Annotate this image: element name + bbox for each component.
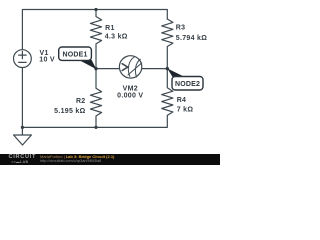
footer bar — [0, 154, 220, 166]
ground — [21, 127, 23, 135]
footer title text — [40, 154, 114, 159]
svg-text:R4: R4 — [177, 97, 187, 104]
resistor R2 — [90, 69, 101, 128]
node junction dot bottom R2 — [94, 126, 97, 129]
svg-text:10 V: 10 V — [39, 56, 55, 63]
svg-text:5.195 kΩ: 5.195 kΩ — [54, 108, 85, 115]
svg-text:7 kΩ: 7 kΩ — [177, 107, 194, 114]
wire left rail lower — [21, 68, 23, 128]
resistor R1 — [90, 10, 101, 69]
svg-text:NODE2: NODE2 — [175, 81, 200, 88]
voltage source V1 — [14, 50, 32, 68]
node flag NODE2 — [167, 68, 203, 90]
node junction dot top R1 — [94, 8, 97, 11]
footer url text — [40, 159, 101, 163]
wire bottom rail — [22, 116, 167, 127]
voltmeter VM2 — [119, 56, 141, 78]
wire bridge right — [142, 68, 168, 70]
svg-text:5.794 kΩ: 5.794 kΩ — [176, 35, 207, 42]
svg-text:VM2: VM2 — [123, 86, 138, 93]
svg-text:0.000 V: 0.000 V — [117, 93, 143, 100]
node NODE2 junction dot — [166, 67, 169, 70]
svg-text:R2: R2 — [76, 98, 86, 105]
svg-text:R3: R3 — [176, 25, 186, 32]
svg-text:R1: R1 — [105, 25, 115, 32]
svg-text:4.3 kΩ: 4.3 kΩ — [105, 33, 128, 40]
footer CircuitLab logo — [9, 155, 37, 160]
node junction dot ground — [21, 126, 24, 129]
node NODE1 junction dot — [94, 67, 97, 70]
wire top rail — [22, 10, 167, 50]
resistor R3 — [162, 19, 173, 69]
wire bridge left — [96, 68, 120, 70]
resistor R4 — [162, 69, 173, 116]
svg-text:NODE1: NODE1 — [62, 51, 87, 58]
node flag NODE1 — [59, 47, 97, 69]
